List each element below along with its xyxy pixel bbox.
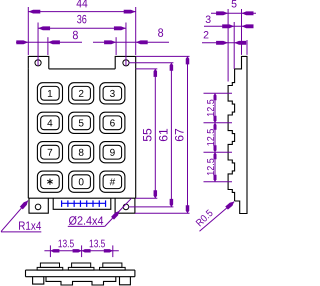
svg-text:5: 5 [78, 118, 84, 129]
svg-text:13.5: 13.5 [89, 238, 105, 250]
svg-text:9: 9 [110, 148, 116, 159]
svg-text:13.5: 13.5 [58, 238, 74, 250]
svg-text:5: 5 [231, 0, 237, 10]
svg-text:4: 4 [47, 118, 53, 129]
svg-text:6: 6 [110, 118, 116, 129]
svg-text:2: 2 [203, 29, 209, 41]
svg-text:12.5: 12.5 [205, 99, 217, 117]
svg-text:0: 0 [78, 177, 84, 188]
svg-text:44: 44 [76, 0, 88, 10]
svg-text:2: 2 [78, 89, 84, 100]
svg-text:8: 8 [158, 26, 164, 40]
svg-text:7: 7 [47, 148, 53, 159]
svg-text:Ø2.4x4: Ø2.4x4 [68, 214, 103, 228]
svg-text:3: 3 [110, 89, 116, 100]
svg-text:8: 8 [78, 148, 84, 159]
svg-text:R1x4: R1x4 [18, 219, 41, 233]
svg-text:12.5: 12.5 [205, 158, 217, 176]
svg-text:#: # [110, 177, 116, 188]
svg-text:8: 8 [72, 28, 78, 42]
svg-text:55: 55 [140, 128, 154, 142]
svg-text:61: 61 [156, 128, 170, 142]
svg-text:36: 36 [77, 12, 87, 26]
svg-text:12.5: 12.5 [205, 129, 217, 147]
svg-text:67: 67 [173, 128, 187, 142]
svg-text:1: 1 [47, 89, 53, 100]
svg-text:3: 3 [205, 14, 211, 26]
